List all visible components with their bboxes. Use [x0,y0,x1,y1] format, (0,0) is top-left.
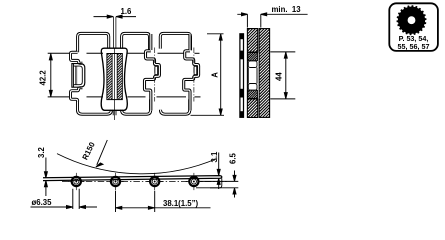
chain plate 3 outline [160,33,190,50]
end view: hinge body outline [247,29,257,118]
svg-text:42.2: 42.2 [38,70,47,86]
pin bore rect [107,54,122,100]
chain side elevation: centre line [62,181,228,183]
hinge joint 1: upper knuckle tab [71,52,83,63]
end view hatching [248,29,270,117]
dimension 6.5 [200,171,238,198]
right end link underside [196,178,222,187]
chain plate 2 outline [122,33,150,50]
slat strip side view [43,176,222,188]
pin 1 cross-section [68,173,84,190]
sprocket icon [397,5,427,35]
R150 leader arrow [96,140,107,167]
right broken plate stub / A extension line [191,114,225,116]
pin bore hatching [107,54,122,99]
dimension 42.2 [49,53,52,97]
svg-text:3.1: 3.1 [210,151,219,163]
svg-text:1.6: 1.6 [121,7,133,16]
pin 4 cross-section [186,173,202,190]
hinge joint 3: interlocking knuckles [145,34,160,111]
hinge joint 1: barrel (D shape, double wall) [72,64,85,88]
pin 2 cross-section [107,173,123,190]
dimension 1.6 [94,15,137,48]
pin centre line [114,49,116,121]
hinge joint 1: lower knuckle tab [71,88,83,102]
svg-text:A: A [211,72,220,78]
pin hidden lines in barrel [75,66,77,84]
svg-text:44: 44 [274,72,283,81]
left broken plate stub / 42.2 extension lines [48,52,71,54]
dimension 3.2 [44,158,47,197]
svg-text:55, 56, 57: 55, 56, 57 [398,42,430,51]
dimension 44 [270,52,295,99]
hinge joint 2: sectioned link (hourglass outline) [101,48,127,110]
gap lines below sectioned link [113,110,116,115]
hinge joint 4: interlocking knuckles [184,34,199,111]
backflex radius arc R150 [57,154,217,174]
dimension dia 6.35 [31,189,98,209]
chain plate 1 outline [78,33,109,52]
dimension 3.1 [217,153,220,190]
slat plate hinge contact marks [240,34,243,117]
knuckle sections in window [248,53,258,61]
svg-text:38.1(1.5”): 38.1(1.5”) [163,199,199,208]
dimension A [207,34,224,116]
svg-text:3.2: 3.2 [37,146,46,158]
pin rod [112,54,117,100]
pin 3 cross-section [147,173,163,190]
dimension 38.1 (1.5 in) [116,191,211,212]
end view: slat plate edge-on [240,29,270,118]
svg-text:min. 13: min. 13 [272,5,302,14]
svg-text:ø6.35: ø6.35 [32,198,53,207]
joint 3 centre line [154,48,156,102]
dimension min. 13 [237,13,307,28]
page reference icon box [389,3,438,51]
svg-text:6.5: 6.5 [228,152,237,164]
